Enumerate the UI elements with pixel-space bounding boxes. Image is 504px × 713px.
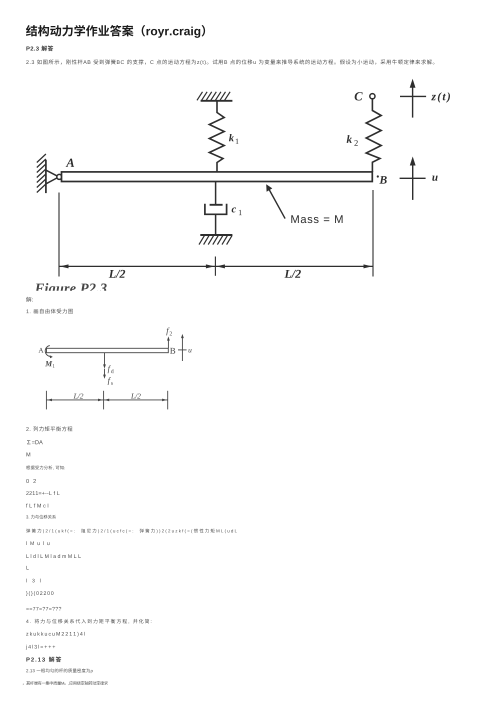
- jie: [26, 297, 32, 302]
- node C circle: [370, 94, 375, 99]
- dimension extension line left (below A): [58, 193, 60, 277]
- para tanhuang: [26, 529, 237, 534]
- FBD label B: [170, 348, 175, 354]
- label L/2 right: [284, 270, 291, 278]
- label k2: [347, 135, 352, 143]
- damper c1 stem: [215, 182, 217, 205]
- dimension extension line right (below B): [372, 190, 374, 277]
- wall hatching at support A: [37, 154, 46, 193]
- eq lMulu: [26, 541, 49, 545]
- ceiling line: [201, 100, 233, 102]
- wall line at A: [45, 160, 47, 193]
- eq zkuk: [26, 632, 84, 637]
- step3: [26, 515, 56, 519]
- label A: [66, 159, 74, 167]
- step2: [26, 426, 72, 431]
- heading P2.3: [26, 46, 53, 52]
- eq 02200: [26, 591, 53, 596]
- FBD label f2: [166, 327, 169, 335]
- para qiganduan: [23, 681, 108, 685]
- title: [26, 25, 205, 38]
- dimension line L/2 + L/2: [59, 265, 373, 267]
- FBD u arrow: [181, 337, 183, 361]
- eq 02: [26, 479, 36, 483]
- FBD dim line: [46, 399, 167, 401]
- eq fLfMcl: [26, 504, 48, 508]
- label Mass = M: [291, 215, 298, 223]
- label C: [355, 92, 363, 100]
- ground line under damper: [200, 234, 232, 236]
- para genju: [26, 466, 65, 470]
- eq 77: [26, 607, 61, 611]
- eq 2211: [26, 491, 59, 495]
- step1: [26, 309, 72, 314]
- FBD label L/2 right: [131, 394, 135, 399]
- FBD label fd: [108, 365, 111, 373]
- FBD bar: [47, 348, 169, 352]
- heading P2.13: [26, 657, 61, 663]
- damper lower rod: [215, 214, 217, 235]
- label z(t): [431, 95, 436, 100]
- eq L: [26, 566, 28, 570]
- pin circle at A: [57, 174, 62, 179]
- FBD dim extension lines: [46, 391, 167, 410]
- Figure P2.3 caption (cropped): [35, 283, 107, 296]
- FBD f2 arrow at B: [167, 339, 169, 348]
- FBD fd fs arrows: [104, 353, 106, 366]
- FBD moment arc M1: [45, 346, 51, 357]
- step4: [26, 619, 151, 624]
- Mass = M leader arrow: [268, 188, 285, 219]
- eq sum: [27, 440, 43, 444]
- damper cylinder cup: [205, 204, 227, 215]
- FBD label fs: [108, 377, 111, 385]
- eq Lldl: [26, 554, 80, 558]
- ground hatching: [199, 235, 232, 244]
- rigid bar AB: [62, 172, 373, 182]
- eq l3l: [26, 579, 40, 583]
- eq j4131: [26, 645, 55, 650]
- spring k2: [366, 99, 381, 172]
- damper piston plate: [210, 204, 223, 206]
- dim arrowheads: [60, 264, 372, 268]
- label u: [432, 176, 437, 181]
- dimension extension line middle: [214, 257, 216, 276]
- spring k1: [209, 101, 224, 172]
- FBD label u: [188, 349, 191, 353]
- pin support triangle at A: [46, 170, 58, 184]
- node B dot and label: [377, 175, 379, 177]
- label L/2 left: [109, 270, 116, 278]
- z(t) arrow: [400, 86, 426, 118]
- label k1: [229, 134, 234, 141]
- eq M: [26, 452, 30, 456]
- FBD label L/2 left: [74, 394, 78, 399]
- u arrow (at B): [400, 164, 426, 200]
- FBD label A: [38, 348, 43, 353]
- para 2.3: [26, 59, 434, 65]
- para 2.13: [26, 668, 93, 673]
- FBD label M1: [45, 361, 52, 366]
- ceiling hatching above spring k1: [197, 92, 230, 101]
- label c1: [232, 207, 236, 212]
